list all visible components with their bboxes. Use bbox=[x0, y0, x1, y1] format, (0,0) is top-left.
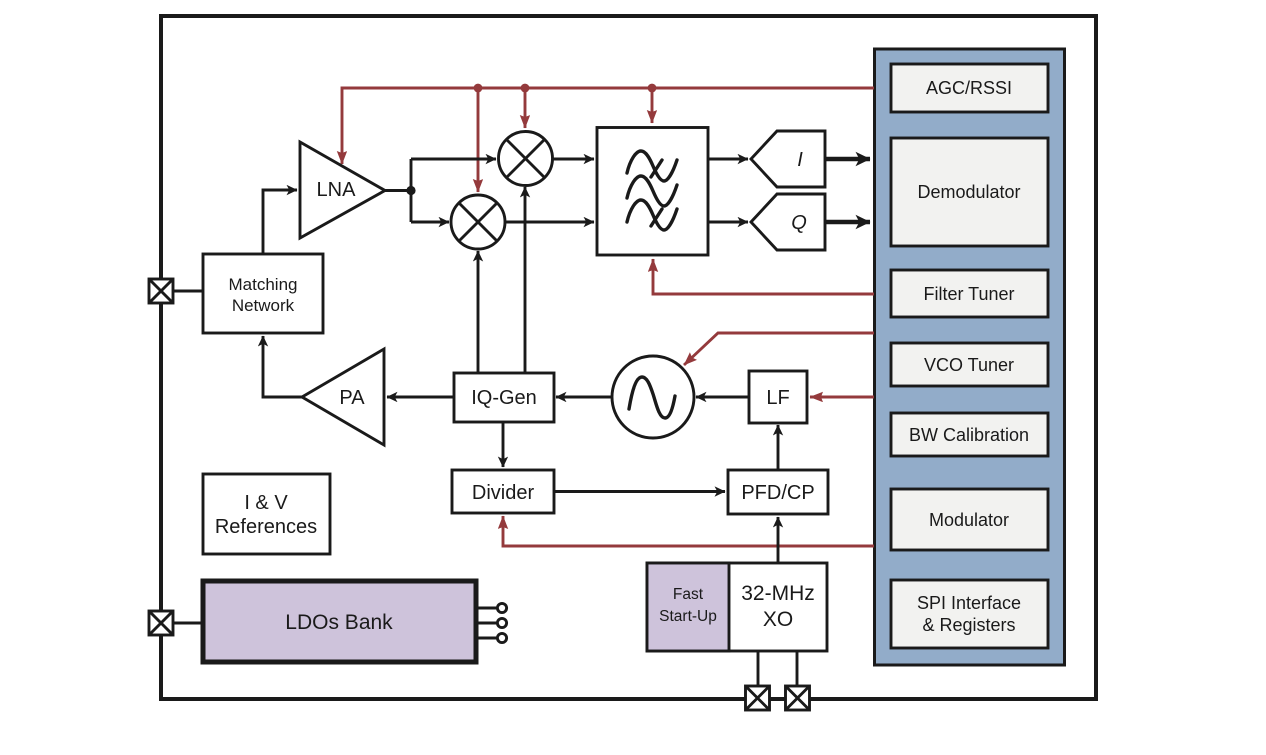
svg-text:AGC/RSSI: AGC/RSSI bbox=[926, 78, 1012, 98]
svg-text:Start-Up: Start-Up bbox=[659, 608, 717, 625]
svg-text:32-MHz: 32-MHz bbox=[741, 582, 815, 605]
svg-text:IQ-Gen: IQ-Gen bbox=[471, 387, 537, 409]
svg-text:PA: PA bbox=[339, 387, 365, 409]
svg-text:I: I bbox=[797, 149, 803, 171]
svg-text:Network: Network bbox=[232, 296, 295, 315]
svg-text:Filter Tuner: Filter Tuner bbox=[923, 284, 1014, 304]
svg-text:Fast: Fast bbox=[673, 586, 704, 603]
svg-text:BW Calibration: BW Calibration bbox=[909, 425, 1029, 445]
svg-text:Demodulator: Demodulator bbox=[917, 182, 1020, 202]
svg-text:LNA: LNA bbox=[317, 179, 357, 201]
svg-text:XO: XO bbox=[763, 608, 793, 631]
svg-text:SPI Interface: SPI Interface bbox=[917, 593, 1021, 613]
svg-text:References: References bbox=[215, 516, 317, 538]
svg-text:Q: Q bbox=[791, 212, 807, 234]
svg-text:VCO Tuner: VCO Tuner bbox=[924, 355, 1014, 375]
svg-text:Modulator: Modulator bbox=[929, 510, 1009, 530]
svg-text:LDOs Bank: LDOs Bank bbox=[285, 611, 393, 634]
svg-text:PFD/CP: PFD/CP bbox=[741, 482, 814, 504]
svg-text:Divider: Divider bbox=[472, 482, 535, 504]
svg-text:I & V: I & V bbox=[244, 492, 288, 514]
svg-text:Matching: Matching bbox=[229, 275, 298, 294]
svg-text:& Registers: & Registers bbox=[922, 615, 1015, 635]
svg-text:LF: LF bbox=[766, 387, 789, 409]
